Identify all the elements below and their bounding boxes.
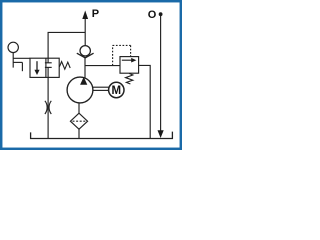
svg-text:P: P: [92, 8, 99, 20]
svg-text:O: O: [148, 9, 157, 21]
svg-text:M: M: [112, 85, 122, 97]
